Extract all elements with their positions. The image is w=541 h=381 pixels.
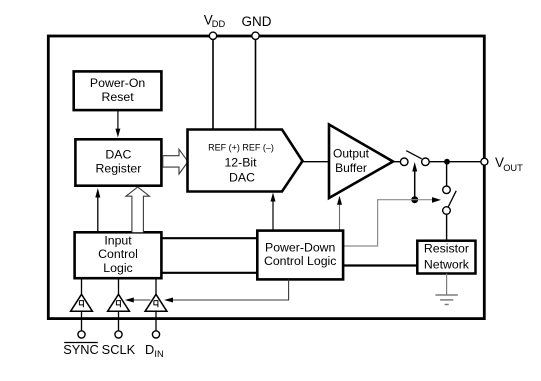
- node B (control junction dot): [411, 196, 418, 203]
- wire Power-Down Control Logic to switches (gray L path): [343, 200, 433, 246]
- wire SYNC buffer to pin: [81, 311, 83, 331]
- ground: [435, 295, 457, 305]
- wire control node to S1 blade (arrow up): [412, 162, 417, 200]
- wire Power-Down Control Logic to 12-Bit DAC (arrow up): [271, 193, 276, 231]
- wire 12-Bit DAC to Output Buffer: [303, 161, 330, 163]
- wire output node to VOUT pin: [447, 161, 481, 163]
- wire DIN buffer to SCLK buffer: [134, 299, 151, 301]
- buffer B3 (DIN, schmitt): [145, 294, 167, 311]
- wire VDD pin to DAC: [212, 38, 214, 130]
- wire SCLK buffer to pin: [118, 311, 120, 331]
- svg-text:Control Logic: Control Logic: [264, 254, 336, 268]
- switch S1 (series output switch): [400, 151, 429, 166]
- svg-text:Register: Register: [96, 162, 142, 176]
- block U1 Power-On Reset: [74, 71, 162, 110]
- svg-text:Buffer: Buffer: [335, 161, 367, 175]
- wire bus Input Control Logic to Power-Down Control Logic (bottom): [161, 272, 257, 274]
- svg-text:DAC: DAC: [105, 148, 131, 162]
- svg-text:Power-On: Power-On: [90, 76, 146, 90]
- svg-text:Reset: Reset: [102, 90, 135, 104]
- svg-text:Power-Down: Power-Down: [265, 241, 336, 255]
- wire Power-Down Control Logic to Output Buffer (arrow up): [337, 196, 342, 231]
- svg-text:Input: Input: [104, 233, 132, 247]
- svg-text:OUT: OUT: [503, 163, 523, 173]
- pin VDD: [204, 13, 226, 40]
- wire S2 to Resistor Network: [446, 214, 448, 241]
- node A (output junction dot): [444, 159, 450, 165]
- wire Input Control Logic to DAC Register (arrow up): [95, 188, 100, 232]
- wire Output Buffer to switch S1: [393, 161, 400, 163]
- wire Input Control Logic to SCLK buffer: [118, 278, 120, 294]
- svg-text:IN: IN: [154, 349, 163, 359]
- arrowhead into SCLK buffer: [125, 298, 134, 303]
- pin VOUT: [481, 155, 523, 173]
- svg-text:SYNC: SYNC: [63, 342, 99, 357]
- wire bus Input Control Logic to Power-Down Control Logic (top): [161, 237, 257, 239]
- bus block arrow DAC Register to 12-Bit DAC: [163, 149, 188, 174]
- pin GND: [242, 14, 272, 40]
- svg-text:Control: Control: [98, 247, 138, 261]
- svg-text:D: D: [145, 342, 154, 357]
- bus block arrow Input Control Logic to DAC Register: [126, 187, 149, 232]
- svg-text:DD: DD: [212, 19, 226, 29]
- wire Input Control Logic to SYNC buffer: [81, 278, 83, 294]
- block U7 Input Control Logic: [75, 232, 162, 278]
- block U2 DAC Register: [75, 139, 161, 185]
- svg-text:SCLK: SCLK: [102, 342, 136, 357]
- pin SYNC: [63, 331, 99, 357]
- buffer B1 (SYNC, schmitt): [71, 294, 93, 311]
- op-amp U4 Output Buffer: [329, 125, 393, 199]
- svg-text:Resistor: Resistor: [424, 241, 469, 255]
- svg-text:DAC: DAC: [229, 171, 255, 185]
- svg-text:Network: Network: [424, 258, 470, 272]
- pin DIN: [145, 331, 164, 359]
- block U5 Resistor Network: [417, 241, 475, 274]
- arrowhead into DIN buffer: [164, 298, 173, 303]
- svg-text:GND: GND: [242, 14, 272, 29]
- wire Input Control Logic to DIN buffer: [155, 278, 157, 294]
- svg-text:12-Bit: 12-Bit: [224, 155, 257, 169]
- wire Power-Down Control Logic to Resistor Network: [343, 264, 417, 266]
- wire output node to switch S2: [446, 162, 448, 186]
- wire Power-Down Control Logic to input buffers: [173, 279, 289, 300]
- svg-text:Logic: Logic: [103, 261, 132, 275]
- wire S1 to output node: [429, 161, 447, 163]
- block U3 12-Bit DAC (pentagon): [188, 130, 303, 192]
- block U6 Power-Down Control Logic: [257, 231, 343, 280]
- wire Resistor Network to ground: [446, 274, 448, 296]
- wire DIN buffer to pin: [155, 311, 157, 331]
- svg-text:REF (+) REF (–): REF (+) REF (–): [208, 142, 274, 152]
- wire Power-On Reset to DAC Register (arrow): [115, 110, 120, 137]
- wire GND pin to DAC: [255, 38, 257, 130]
- pin SCLK: [102, 331, 136, 357]
- switch S2 (to resistor network): [443, 186, 457, 214]
- buffer B2 (SCLK, schmitt): [108, 294, 130, 311]
- chip outer boundary box: [48, 36, 484, 319]
- arrowhead to S2 blade: [432, 197, 441, 203]
- svg-text:Output: Output: [333, 147, 370, 161]
